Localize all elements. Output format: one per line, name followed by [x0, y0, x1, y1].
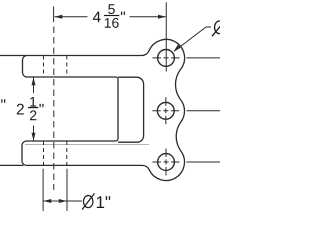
outer outline with three lobes — [0, 39, 185, 180]
hole H2 (middle) — [157, 102, 174, 119]
faint inner arm edge — [25, 144, 149, 146]
hole H2 centermark — [152, 97, 220, 124]
wire: bottom-left edge fragment — [0, 164, 23, 166]
label dia 1 — [82, 193, 110, 209]
arrow right of dia 1 — [59, 199, 67, 203]
part outline: hinge leaf with scalloped plate — [0, 39, 185, 180]
dimension 4 5/16: extension lines — [54, 2, 167, 71]
leader arrowhead — [173, 44, 180, 52]
label 4 5/16 — [93, 4, 125, 28]
arrow right of 4 5/16 — [158, 15, 166, 19]
dimension dia 1: extension lines — [43, 169, 67, 211]
arrow down of 2 1/2 — [32, 133, 36, 141]
centerline of 1 inch hole (dashed) — [53, 27, 55, 191]
dimension dia 1: dimension line — [43, 200, 82, 202]
dimension 2 1/2: dimension line — [33, 78, 35, 141]
dimension 4 5/16: dimension line — [55, 16, 166, 18]
leader to top hole — [175, 27, 212, 51]
arrow left of 4 5/16 — [54, 15, 62, 19]
arrow left of dia 1 — [43, 199, 51, 203]
hole H1 (top) — [158, 50, 175, 67]
middle knuckle plate B — [119, 77, 144, 142]
hidden hole lines bottom arm — [43, 141, 45, 165]
hole H3 centermark — [153, 149, 221, 176]
hidden hole lines top arm — [44, 56, 67, 166]
cropped quote fragment at left edge — [1, 99, 5, 102]
hole H3 (bottom) — [158, 154, 175, 171]
diameter symbol top right (cropped) — [212, 18, 227, 36]
label 2 1/2 — [17, 97, 44, 120]
diameter symbol — [84, 196, 93, 208]
hole H1 centermark — [153, 57, 221, 59]
arrow up of 2 1/2 — [32, 77, 36, 85]
